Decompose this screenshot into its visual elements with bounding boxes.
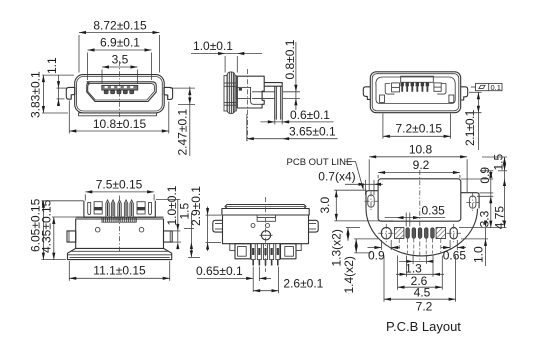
svg-text:3.5: 3.5 (112, 53, 129, 67)
small circles (251, 224, 255, 228)
svg-text:2.9±0.1: 2.9±0.1 (189, 186, 203, 226)
centerline side view (247, 69, 249, 141)
left flange (84, 201, 102, 217)
wide shell pad right (436, 228, 445, 239)
shell outer (370, 72, 460, 113)
svg-text:7.2±0.15: 7.2±0.15 (395, 122, 442, 136)
dim 11.1±0.15 (bottom) (69, 261, 169, 281)
svg-text:3.83±0.1: 3.83±0.1 (29, 71, 43, 118)
flatness tolerance frame (471, 83, 502, 92)
dim 1.4(x2) (vertical) (342, 239, 378, 294)
dim 3.0 (vertical, left of PCB layout) (318, 190, 393, 221)
dim 1.3 (stack) (399, 256, 434, 276)
centerline bottom view (265, 197, 267, 272)
svg-text:0.65±0.1: 0.65±0.1 (196, 264, 243, 278)
svg-text:4.35±0.15: 4.35±0.15 (39, 199, 53, 253)
dim 1.3(x2) (vertical) (330, 228, 361, 267)
dim 8.72±0.15 (79, 19, 160, 73)
dim 0.65±0.1 (196, 264, 271, 292)
dim 0.65 (pcb bottom right) (441, 240, 466, 263)
left nub (230, 244, 235, 251)
hatched insulator strip (102, 217, 136, 222)
svg-text:4.5: 4.5 (414, 286, 431, 300)
bottom flange band (79, 113, 157, 116)
rivet holes (95, 227, 100, 232)
svg-text:8.72±0.15: 8.72±0.15 (93, 19, 147, 33)
dim 2.1±0.1 (vertical) (463, 92, 482, 150)
bottom skirt (68, 248, 172, 259)
svg-text:9.2: 9.2 (413, 158, 430, 172)
svg-text:0.6±0.1: 0.6±0.1 (290, 108, 330, 122)
dim 6.05±0.15 (vertical left) (29, 198, 84, 259)
svg-text:0.1: 0.1 (491, 83, 501, 92)
main centerline (419, 170, 421, 262)
right latch (309, 220, 319, 232)
lead leg down (275, 86, 282, 119)
right ear oval hole (470, 196, 476, 208)
dim 4.35±0.15 (vertical left) (39, 199, 82, 259)
right retention box (434, 83, 441, 91)
tongue bar (102, 85, 138, 90)
internal contact box (236, 87, 250, 98)
5 contacts under tongue (104, 90, 134, 94)
dim 10.8 (pcb) (369, 142, 467, 192)
front band 1 (225, 205, 306, 209)
left side tab (67, 231, 76, 242)
dim 7.2±0.15 (383, 114, 451, 139)
dim 1.1 (left, vertical) (42, 57, 74, 106)
svg-text:3.3: 3.3 (478, 210, 492, 227)
left ear oval hole (368, 195, 374, 207)
svg-text:0.7(x4): 0.7(x4) (318, 169, 355, 183)
svg-text:1.0±0.1: 1.0±0.1 (193, 39, 233, 53)
left wing (363, 87, 370, 100)
svg-text:0.65: 0.65 (443, 249, 467, 263)
svg-text:2.47±0.1: 2.47±0.1 (176, 109, 190, 156)
wide shell leg right (281, 244, 297, 259)
top notch (257, 215, 275, 221)
dim 7.5±0.15 (85, 177, 154, 200)
smt tab (264, 83, 282, 87)
dim 1.0 (pcb right, vertical) (459, 221, 507, 267)
dim 2.6±0.1 (253, 267, 323, 294)
svg-text:PCB OUT LINE: PCB OUT LINE (287, 157, 353, 168)
dim 1.0±0.1 (vertical, right of rear view) (156, 185, 181, 249)
shell inner line (77, 77, 163, 112)
svg-text:3.65±0.1: 3.65±0.1 (289, 125, 336, 139)
shell outer (75, 75, 165, 113)
D-opening inner (88, 84, 155, 100)
pcb outline arc (366, 208, 478, 256)
5 pins top (106, 200, 133, 217)
dim 1.5 (vertical) (178, 202, 201, 257)
svg-text:1.1: 1.1 (45, 57, 59, 74)
dim 0.35 (385, 203, 445, 226)
right oval pad (450, 227, 457, 239)
dim 9.2 (pcb) (378, 158, 460, 178)
left latch (213, 220, 223, 232)
small posts bottom (380, 95, 385, 103)
dim 3.83±0.1 (left, vertical) (29, 71, 69, 118)
svg-text:2.6±0.1: 2.6±0.1 (283, 276, 323, 290)
dim 3.65±0.1 (247, 114, 338, 141)
5 narrow legs (251, 244, 280, 260)
right side tab (164, 87, 173, 99)
dim 0.8±0.1 (vertical right of side view) (283, 39, 300, 110)
right wing (461, 87, 468, 100)
svg-text:1.0: 1.0 (472, 246, 486, 263)
tongue notches (105, 86, 108, 88)
svg-text:7.5±0.15: 7.5±0.15 (96, 177, 143, 191)
dim 7.2 (stack) (384, 256, 456, 314)
svg-text:3.0: 3.0 (318, 196, 332, 213)
svg-text:6.9±0.1: 6.9±0.1 (100, 36, 140, 50)
center slot (401, 76, 434, 82)
front band 2 (222, 209, 309, 216)
D-opening outer (87, 82, 156, 102)
body (237, 76, 264, 108)
dim 3.5 (102, 53, 138, 85)
wide shell pad left (395, 228, 404, 239)
left oval pad (381, 227, 391, 239)
left side tab (66, 87, 75, 99)
5 signal pads (406, 228, 434, 238)
svg-text:P.C.B Layout: P.C.B Layout (386, 319, 461, 334)
pad extension dashes below (399, 239, 441, 255)
centerline rear view (119, 196, 121, 253)
right side tab (164, 231, 173, 242)
svg-text:10.8±0.15: 10.8±0.15 (93, 117, 147, 131)
footprint main rect (378, 179, 461, 221)
body (76, 216, 164, 218)
svg-text:1.5: 1.5 (491, 153, 505, 170)
svg-text:11.1±0.15: 11.1±0.15 (93, 263, 146, 277)
svg-text:1.4(x2): 1.4(x2) (342, 256, 356, 293)
right nub (296, 244, 301, 251)
dim 2.9±0.1 (vertical) (189, 186, 221, 251)
svg-text:0.35: 0.35 (422, 203, 446, 217)
body (223, 215, 309, 244)
svg-text:2.1±0.1: 2.1±0.1 (463, 109, 477, 146)
6 pins (401, 82, 430, 92)
svg-text:0.8±0.1: 0.8±0.1 (283, 39, 297, 79)
dim 4.5 (stack) (398, 256, 443, 300)
svg-text:7.2: 7.2 (416, 300, 433, 314)
washboard mating flange (224, 76, 236, 111)
dim 0.6±0.1 (261, 108, 334, 124)
dim 0.7(x4) leader (318, 169, 382, 195)
dim 1.0±0.1 (top of side view) (191, 39, 262, 73)
dim 2.47±0.1 (vertical) (170, 87, 195, 157)
right ear (461, 193, 479, 209)
dim 0.9 (pcb bottom left) (368, 240, 401, 263)
PCB OUT LINE label (287, 157, 364, 191)
right flange (137, 201, 155, 217)
dim 10.8±0.15 (bottom) (69, 101, 169, 134)
dim 0.9 / 3.3 vertical line (461, 167, 493, 228)
dim 6.9±0.1 (88, 36, 152, 81)
svg-text:0.9: 0.9 (368, 249, 385, 263)
wide shell leg left (235, 244, 251, 259)
inner cavity ring (376, 77, 455, 104)
leg feet (253, 260, 278, 266)
big circle (261, 231, 270, 240)
svg-text:10.8: 10.8 (409, 142, 433, 156)
dim 1.5 / 4.75 vertical line (482, 153, 507, 229)
dim 2.6 (stack) (396, 256, 444, 289)
left retention box (392, 83, 400, 92)
centerline front view (119, 61, 121, 119)
left ear (366, 191, 378, 209)
